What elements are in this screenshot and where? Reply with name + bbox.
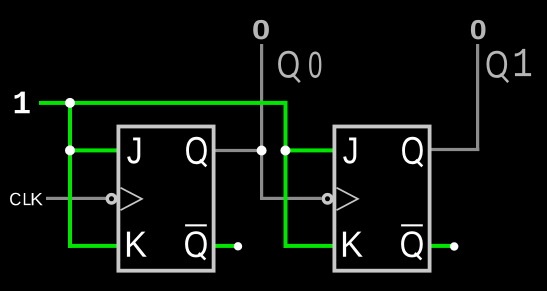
clock edge triangle (U2) <box>337 188 358 210</box>
wire node Q1 vertical: probe Q1 down to U2 Q (gray) <box>476 44 479 151</box>
junction dot on rail at node 1 <box>65 98 75 108</box>
overline of Q-bar (U1) <box>185 224 207 226</box>
tail of Q in label Q0 <box>292 74 300 82</box>
clock edge triangle (U1) <box>121 188 142 210</box>
net label Q1 digit 1 <box>515 49 531 76</box>
overline of Q-bar (U2) <box>401 224 423 226</box>
pin label K (U1) <box>127 232 147 257</box>
wire node Q0 to U2 clock bubble (gray) <box>260 197 322 200</box>
pin label Q-bar (U2) <box>401 231 423 257</box>
wire J1 input (green) <box>68 148 117 152</box>
wire U1 Q output to node Q0 (gray) <box>214 149 262 152</box>
wire K2 input (green) <box>284 244 334 248</box>
wire K1 input (green) <box>68 244 117 248</box>
junction dot node Q0 <box>257 146 267 156</box>
net label Q1 letter Q <box>486 51 507 78</box>
tail of Q-bar (U2) <box>415 253 422 260</box>
wire vertical branch at x=285.5 down to K2 row (green) <box>284 101 288 248</box>
junction dot J1 branch <box>65 145 75 155</box>
wire node Q0 vertical: probe Q0 down through junction to clock branch (gray) <box>260 44 263 200</box>
probe value 0 at Q1 <box>471 20 486 39</box>
tail of Q in label Q1 <box>500 74 508 82</box>
pin label K (U2) <box>343 232 363 257</box>
pin label J (U2) <box>343 137 356 163</box>
JK flip-flop U1 body <box>118 127 213 271</box>
probe value 0 at Q0 <box>253 20 269 39</box>
pin label Q-bar (U1) <box>185 231 207 257</box>
label CLK letter C <box>10 193 21 206</box>
wire J2 input (green) <box>284 148 334 152</box>
tail of Q-bar (U1) <box>199 253 206 260</box>
constant label 1 <box>15 92 30 114</box>
wire U2 Q-bar output stub (green) <box>430 244 452 248</box>
tail of Q (U1) <box>200 160 207 167</box>
label CLK letter L <box>24 193 31 205</box>
wire U1 Q-bar output stub (green) <box>214 244 236 248</box>
clock bubble (U1, negative edge trigger) <box>107 195 115 203</box>
clock bubble (U2, negative edge trigger) <box>323 195 331 203</box>
net label Q0 letter Q <box>278 51 299 78</box>
pin label Q (U2) <box>402 137 423 164</box>
wire logic-1 rail from constant 1 (green) <box>39 101 288 105</box>
end dot U2 Q-bar <box>450 242 458 250</box>
junction dot J2 branch <box>280 146 290 156</box>
label CLK letter K <box>32 193 43 205</box>
pin label Q (U1) <box>186 137 207 164</box>
wire CLK input to U1 clock bubble (gray) <box>46 197 106 200</box>
tail of Q (U2) <box>416 160 423 167</box>
net label Q0 digit 0 <box>309 51 321 78</box>
wire vertical branch at x=70 down to K1 row (green) <box>68 101 72 248</box>
pin label J (U1) <box>127 137 140 163</box>
JK flip-flop U2 body <box>334 127 429 271</box>
end dot U1 Q-bar <box>234 242 242 250</box>
wire U2 Q output toward probe Q1 (gray) <box>429 148 479 151</box>
